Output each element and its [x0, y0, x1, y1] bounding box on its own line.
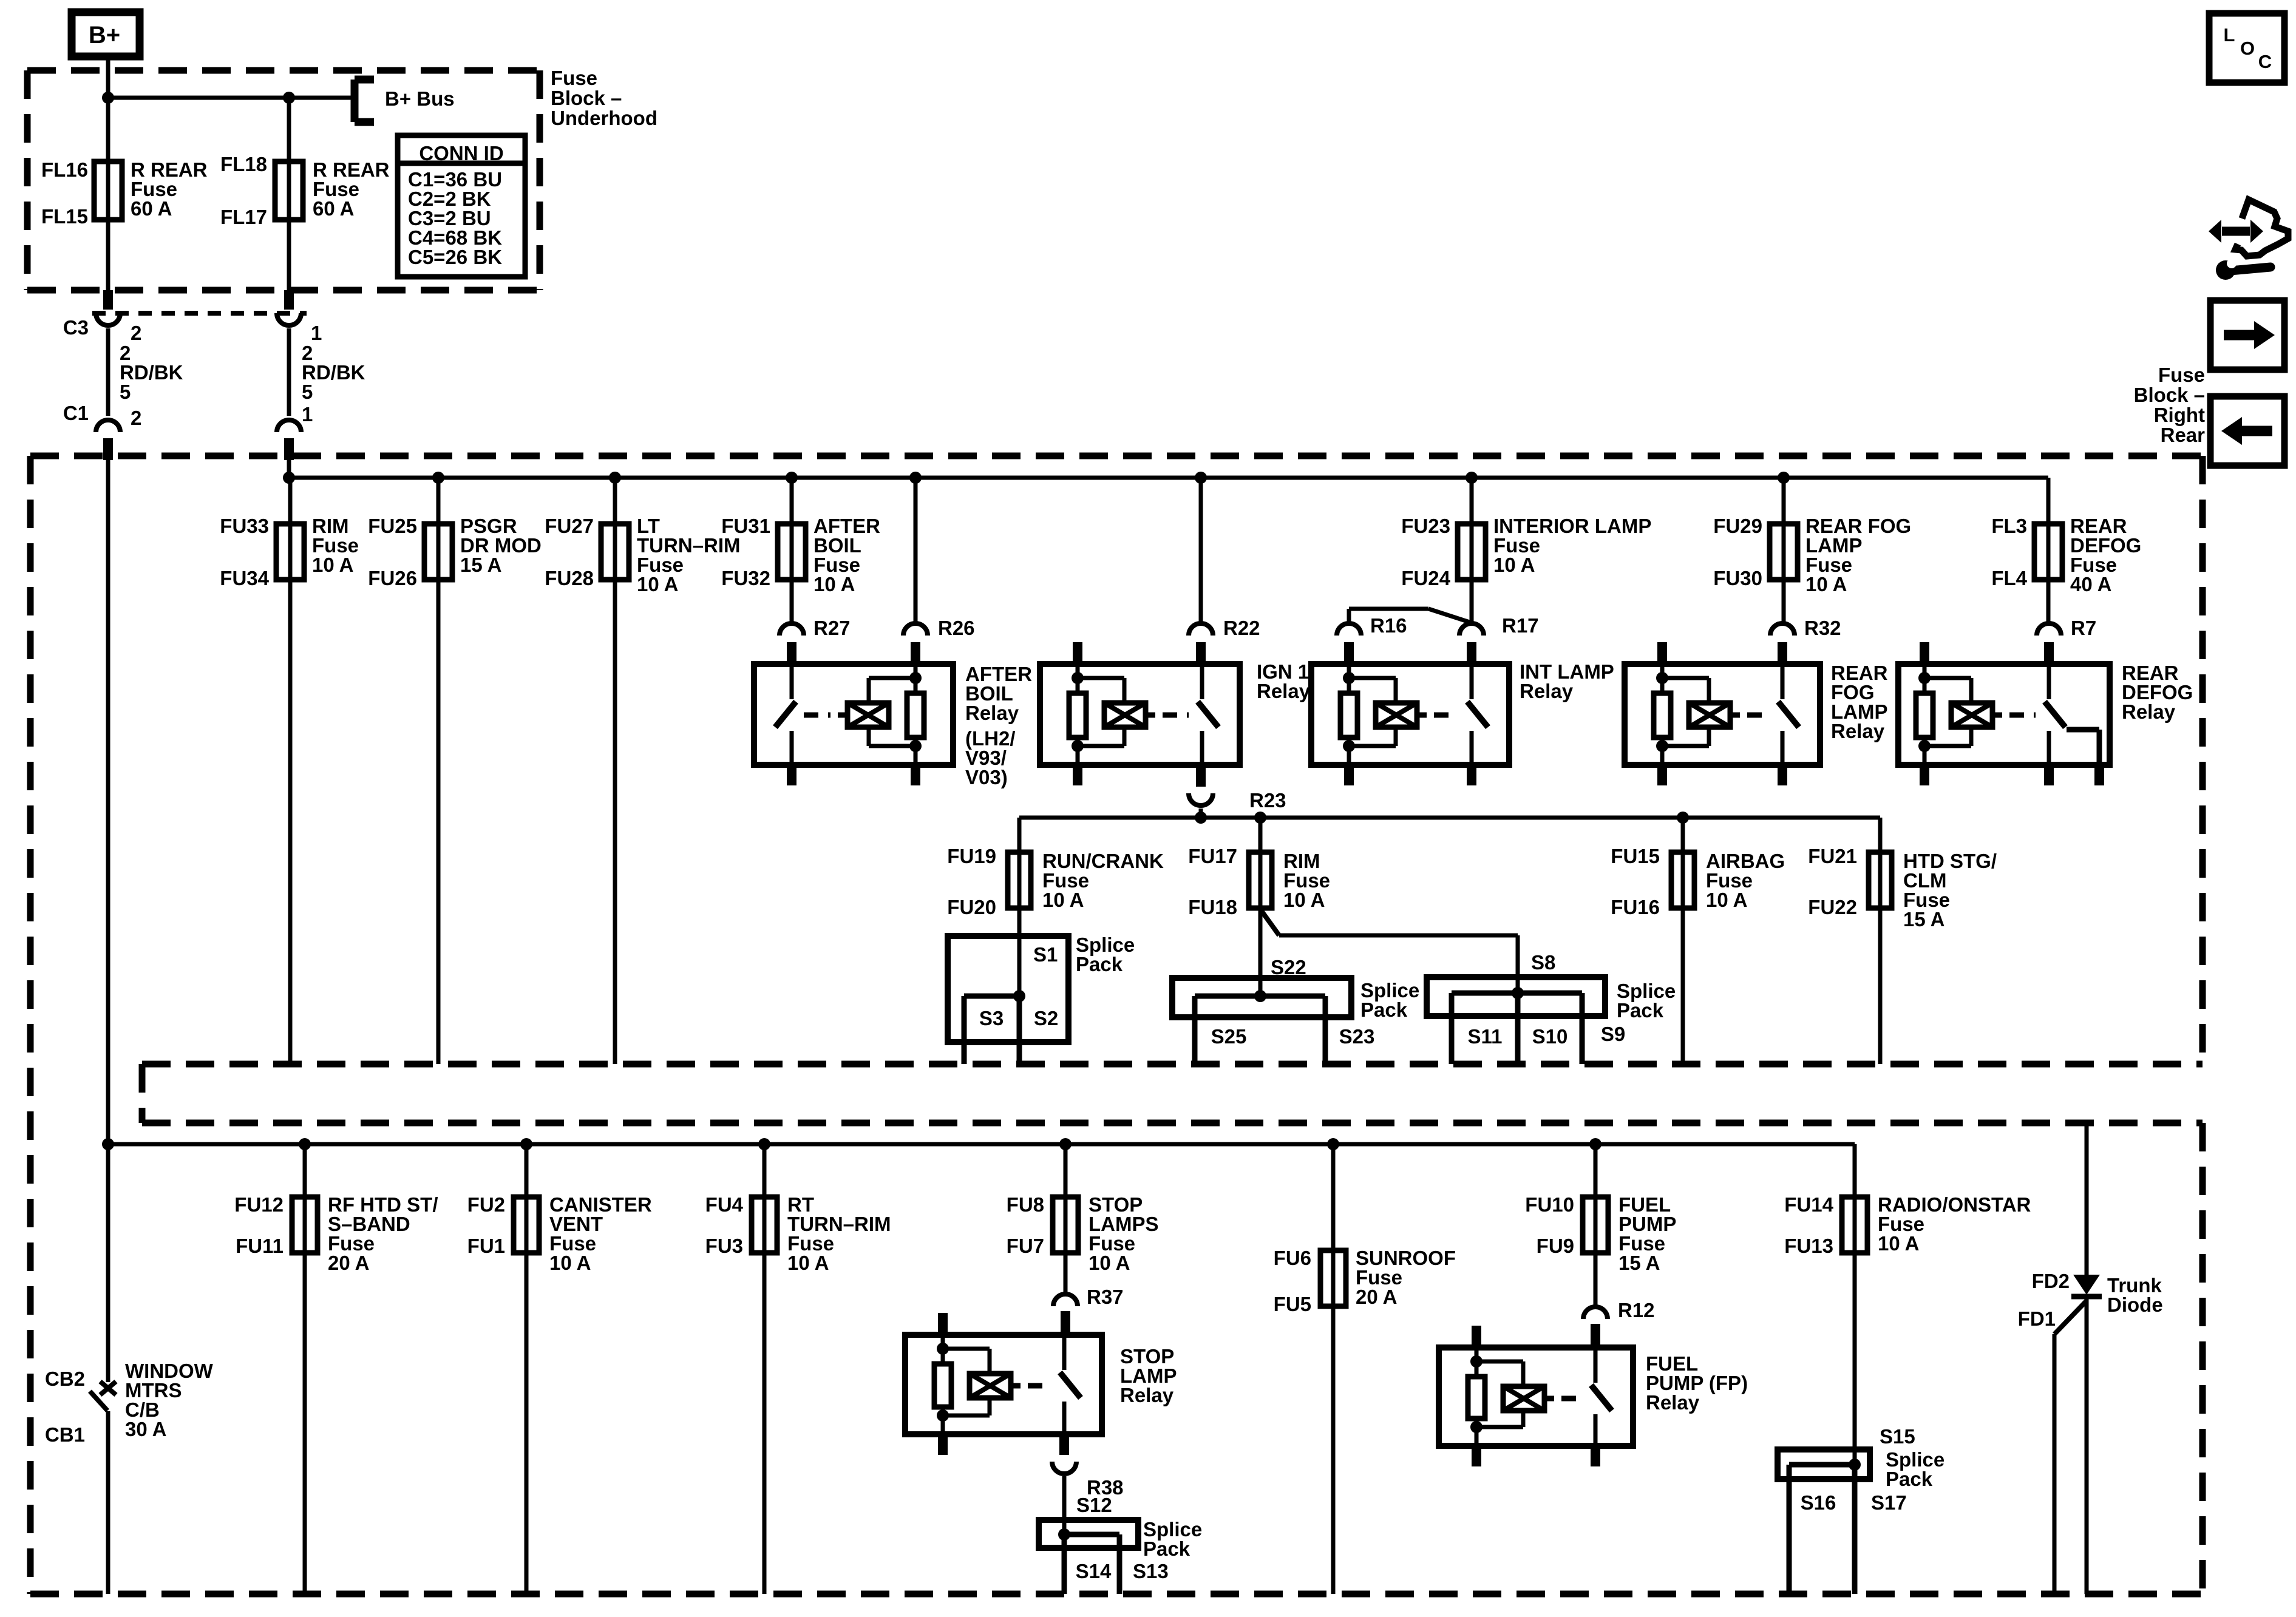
svg-text:R27: R27	[813, 617, 851, 639]
svg-text:S8: S8	[1531, 951, 1555, 974]
svg-text:S1: S1	[1033, 943, 1058, 966]
svg-text:FU14: FU14	[1784, 1193, 1833, 1216]
svg-text:FU7: FU7	[1007, 1235, 1044, 1257]
svg-text:S22: S22	[1271, 956, 1306, 978]
svg-text:Relay: Relay	[965, 702, 1019, 724]
svg-text:Rear: Rear	[2161, 424, 2206, 446]
svg-text:40 A: 40 A	[2070, 573, 2111, 595]
svg-text:S3: S3	[979, 1007, 1004, 1029]
svg-text:FU20: FU20	[947, 896, 996, 918]
svg-text:10 A: 10 A	[1706, 889, 1747, 911]
svg-text:Pack: Pack	[1143, 1537, 1190, 1560]
svg-text:FD2: FD2	[2032, 1270, 2070, 1292]
svg-text:10 A: 10 A	[1493, 554, 1535, 576]
svg-text:10 A: 10 A	[1283, 889, 1325, 911]
svg-text:B+: B+	[89, 22, 120, 49]
svg-text:FU18: FU18	[1188, 896, 1237, 918]
svg-text:FU19: FU19	[947, 845, 996, 867]
svg-text:15 A: 15 A	[1618, 1252, 1660, 1274]
svg-text:C1: C1	[63, 402, 89, 424]
svg-text:FL18: FL18	[220, 153, 267, 175]
svg-text:FU6: FU6	[1274, 1247, 1311, 1269]
svg-text:FU9: FU9	[1537, 1235, 1574, 1257]
svg-text:L: L	[2224, 24, 2235, 46]
svg-text:R22: R22	[1223, 617, 1260, 639]
svg-text:FU26: FU26	[368, 567, 417, 589]
svg-text:Fuse: Fuse	[2158, 364, 2205, 386]
svg-text:Pack: Pack	[1076, 953, 1123, 975]
svg-text:60 A: 60 A	[131, 197, 172, 220]
svg-text:R16: R16	[1370, 614, 1407, 637]
svg-text:FU27: FU27	[545, 515, 594, 537]
svg-text:Block –: Block –	[2134, 384, 2205, 406]
svg-text:S15: S15	[1880, 1425, 1915, 1448]
svg-text:FU13: FU13	[1784, 1235, 1833, 1257]
svg-text:1: 1	[311, 322, 322, 344]
svg-text:Right: Right	[2154, 404, 2205, 426]
svg-text:O: O	[2240, 38, 2255, 59]
svg-text:S2: S2	[1034, 1007, 1058, 1029]
svg-text:FU5: FU5	[1274, 1293, 1311, 1315]
svg-text:FU30: FU30	[1713, 567, 1762, 589]
svg-text:FD1: FD1	[2018, 1307, 2056, 1330]
svg-text:Pack: Pack	[1360, 998, 1408, 1021]
svg-text:Relay: Relay	[1120, 1384, 1174, 1406]
svg-text:10 A: 10 A	[637, 573, 678, 595]
svg-text:S16: S16	[1801, 1491, 1836, 1514]
svg-text:S12: S12	[1076, 1494, 1112, 1516]
svg-text:FU1: FU1	[467, 1235, 505, 1257]
svg-text:Fuse: Fuse	[551, 67, 597, 89]
svg-text:10 A: 10 A	[813, 573, 855, 595]
svg-text:FU29: FU29	[1713, 515, 1762, 537]
svg-text:R37: R37	[1087, 1286, 1124, 1308]
svg-text:10 A: 10 A	[787, 1252, 829, 1274]
svg-text:FU8: FU8	[1007, 1193, 1044, 1216]
svg-text:10 A: 10 A	[1042, 889, 1084, 911]
svg-text:FU34: FU34	[220, 567, 269, 589]
svg-text:Block –: Block –	[551, 87, 622, 109]
svg-text:C: C	[2258, 51, 2272, 72]
svg-text:FU22: FU22	[1808, 896, 1857, 918]
svg-text:FL15: FL15	[41, 205, 88, 228]
svg-text:FU3: FU3	[705, 1235, 743, 1257]
svg-text:20 A: 20 A	[1356, 1286, 1397, 1308]
svg-text:CB2: CB2	[45, 1368, 85, 1390]
svg-text:S11: S11	[1468, 1025, 1503, 1048]
svg-text:FL4: FL4	[1991, 567, 2027, 589]
svg-text:FU15: FU15	[1611, 845, 1660, 867]
svg-text:S14: S14	[1076, 1560, 1112, 1582]
svg-text:FU31: FU31	[721, 515, 770, 537]
svg-text:FU17: FU17	[1188, 845, 1237, 867]
svg-text:Relay: Relay	[1646, 1391, 1700, 1414]
svg-text:FU21: FU21	[1808, 845, 1857, 867]
svg-text:FL3: FL3	[1991, 515, 2027, 537]
svg-text:FU23: FU23	[1401, 515, 1450, 537]
svg-text:CB1: CB1	[45, 1423, 85, 1446]
svg-text:S10: S10	[1532, 1025, 1568, 1048]
svg-text:15 A: 15 A	[1903, 908, 1944, 931]
svg-text:10 A: 10 A	[1805, 573, 1847, 595]
svg-text:Relay: Relay	[2122, 700, 2176, 723]
svg-text:Underhood: Underhood	[551, 107, 657, 129]
svg-text:FU16: FU16	[1611, 896, 1660, 918]
svg-text:2: 2	[131, 322, 141, 344]
svg-text:FU33: FU33	[220, 515, 269, 537]
svg-text:5: 5	[302, 381, 313, 403]
svg-text:30 A: 30 A	[125, 1418, 166, 1440]
svg-text:S23: S23	[1339, 1025, 1375, 1048]
svg-text:CONN ID: CONN ID	[419, 142, 503, 164]
svg-text:R23: R23	[1249, 789, 1286, 812]
svg-text:V03): V03)	[965, 766, 1008, 788]
svg-text:5: 5	[120, 381, 131, 403]
svg-text:S17: S17	[1871, 1491, 1907, 1514]
svg-text:FU10: FU10	[1525, 1193, 1574, 1216]
svg-text:FU12: FU12	[234, 1193, 284, 1216]
svg-text:20 A: 20 A	[328, 1252, 369, 1274]
svg-text:Relay: Relay	[1831, 720, 1885, 742]
svg-text:10 A: 10 A	[1878, 1232, 1919, 1255]
svg-text:60 A: 60 A	[313, 197, 354, 220]
svg-text:R12: R12	[1618, 1299, 1655, 1321]
svg-text:10 A: 10 A	[312, 554, 353, 576]
svg-text:Relay: Relay	[1520, 680, 1574, 702]
svg-text:B+ Bus: B+ Bus	[385, 87, 455, 110]
svg-text:R26: R26	[938, 617, 975, 639]
svg-text:R17: R17	[1502, 614, 1539, 637]
svg-text:2: 2	[131, 407, 141, 429]
svg-text:FL16: FL16	[41, 158, 88, 181]
svg-text:FU4: FU4	[705, 1193, 744, 1216]
svg-text:15 A: 15 A	[460, 554, 501, 576]
svg-text:FU24: FU24	[1401, 567, 1450, 589]
svg-text:FU28: FU28	[545, 567, 594, 589]
svg-text:R7: R7	[2071, 617, 2096, 639]
svg-text:FU32: FU32	[721, 567, 770, 589]
svg-text:C3: C3	[63, 316, 89, 339]
svg-text:FU2: FU2	[467, 1193, 505, 1216]
svg-text:FU11: FU11	[236, 1235, 284, 1257]
svg-text:FU25: FU25	[368, 515, 417, 537]
svg-text:S13: S13	[1133, 1560, 1169, 1582]
svg-text:S9: S9	[1601, 1023, 1625, 1045]
svg-text:R32: R32	[1804, 617, 1841, 639]
svg-text:1: 1	[302, 403, 313, 425]
svg-text:Pack: Pack	[1886, 1468, 1933, 1490]
svg-text:C5=26 BK: C5=26 BK	[408, 246, 502, 268]
svg-text:Relay: Relay	[1257, 680, 1311, 702]
svg-text:10 A: 10 A	[1089, 1252, 1130, 1274]
svg-text:FL17: FL17	[220, 206, 267, 228]
svg-text:Pack: Pack	[1617, 999, 1664, 1022]
svg-text:10 A: 10 A	[549, 1252, 591, 1274]
svg-text:S25: S25	[1211, 1025, 1247, 1048]
svg-text:Diode: Diode	[2107, 1293, 2163, 1316]
